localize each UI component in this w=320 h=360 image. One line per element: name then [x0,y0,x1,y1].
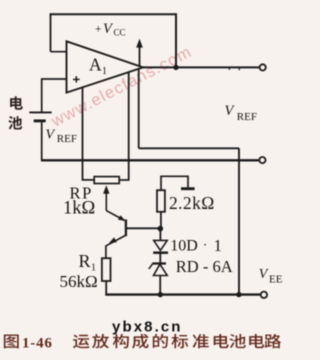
transistor base bar [125,219,127,236]
svg-text:10D: 10D [170,238,198,255]
resistor R1 body [102,258,111,281]
terminal 1 circle [260,64,266,70]
wire pot left from op-amp [83,88,95,180]
tick marks on output wire [228,67,230,70]
caption text [73,335,90,349]
transistor emitter diagonal [106,236,125,246]
svg-text:1kΩ: 1kΩ [63,198,95,218]
wire inverting input [51,51,67,53]
wire non-inverting input [42,78,67,80]
diode D1 cathode bar [153,251,168,254]
wire R1 bottom [105,281,107,295]
transistor emitter arrow [109,237,117,243]
wire diode2 bottom [159,276,161,295]
svg-text:RD - 6A: RD - 6A [176,257,233,276]
svg-text:·: · [203,239,208,254]
svg-text:+: + [95,23,102,35]
wire VEE rail [105,293,260,295]
wire 2.2k top to ground [161,176,188,190]
junction dot output-feedback [173,65,178,70]
wire x239 vertical to VEE rail [238,148,240,294]
svg-text:2.2kΩ: 2.2kΩ [169,193,215,213]
svg-text:CC: CC [114,27,126,37]
op-amp A1 triangle [67,41,144,92]
wire battery bottom [41,122,43,160]
resistor 2.2k body [157,190,165,212]
zener D2 cathode bar [152,262,166,264]
caption figure number [4,335,19,349]
wire emitter down [105,245,107,258]
junction dot x239 rail [236,292,241,297]
svg-text:EE: EE [269,274,283,286]
diode D1 10D-1 triangle [154,240,168,250]
wire mid rail to terminal [41,159,259,161]
svg-text:A: A [89,55,102,75]
terminal VEE circle [261,292,267,298]
potentiometer wiper arrow [103,185,109,194]
wire diode link [159,253,161,264]
op-amp plus input sign [73,78,80,80]
svg-text:R: R [79,251,91,271]
svg-text:REF: REF [57,133,77,145]
wire y148 horizontal [139,147,239,149]
junction dot diode bottom [158,292,163,297]
svg-text:56kΩ: 56kΩ [60,272,98,291]
svg-text:1: 1 [102,66,107,77]
zener D2 left tail [149,264,153,269]
wire output [143,66,260,68]
junction dot base-diode [158,226,164,232]
svg-text:V: V [46,128,56,143]
wire 2.2k bottom [160,212,162,229]
wire feedback left vertical [50,13,52,51]
wire output-side down to pot right [128,72,130,180]
label battery dianchi [10,96,23,109]
Vcc supply arrow [139,42,141,67]
wire battery top [41,78,43,111]
wire feedback top [50,13,177,15]
wire feedback right vertical [175,13,177,67]
ground bar [181,187,195,190]
svg-text:1-46: 1-46 [22,335,53,351]
wire pot right link [119,179,129,181]
svg-text:ybx8.cn: ybx8.cn [112,319,183,336]
terminal 2 circle [259,157,265,163]
battery plate long [29,111,51,113]
wire to diode1 [159,229,161,241]
potentiometer RP body [94,177,119,184]
svg-text:V: V [259,267,269,282]
svg-text:REF: REF [237,111,257,123]
battery plate short [34,119,46,122]
svg-text:1: 1 [214,236,222,255]
wire op-amp VEE pin down [138,69,140,149]
transistor base wire [127,227,159,229]
zener D2 triangle [154,264,168,275]
